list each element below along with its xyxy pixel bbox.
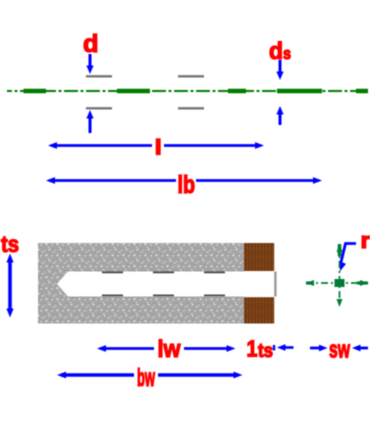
svg-text:1: 1 bbox=[247, 336, 258, 362]
svg-text:s: s bbox=[283, 44, 291, 63]
svg-text:r: r bbox=[361, 228, 370, 253]
svg-text:lw: lw bbox=[158, 336, 182, 363]
svg-text:ts: ts bbox=[258, 341, 273, 362]
svg-text:lb: lb bbox=[178, 171, 196, 199]
svg-text:ts: ts bbox=[1, 231, 19, 257]
svg-text:d: d bbox=[83, 30, 99, 58]
svg-text:sw: sw bbox=[329, 337, 350, 364]
svg-text:bw: bw bbox=[137, 364, 155, 392]
svg-text:d: d bbox=[269, 38, 283, 65]
